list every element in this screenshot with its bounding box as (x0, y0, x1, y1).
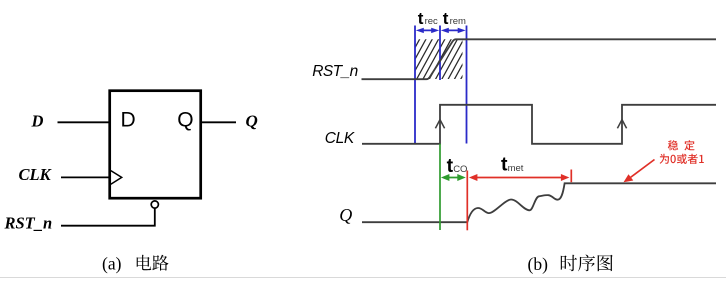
svg-text:D: D (121, 108, 136, 131)
svg-text:D: D (31, 111, 44, 130)
svg-text:CLK: CLK (325, 130, 355, 147)
svg-text:Q: Q (339, 205, 352, 225)
svg-text:CO: CO (453, 164, 467, 175)
svg-text:t: t (443, 9, 449, 28)
svg-text:RST_n: RST_n (312, 63, 358, 80)
svg-text:(a): (a) (102, 253, 122, 273)
svg-text:rem: rem (450, 16, 466, 27)
svg-text:Q: Q (246, 112, 258, 131)
svg-text:Q: Q (177, 108, 193, 131)
svg-text:t: t (418, 9, 424, 28)
svg-text:(b): (b) (528, 254, 549, 274)
svg-text:RST_n: RST_n (4, 214, 53, 233)
svg-text:CLK: CLK (19, 165, 52, 184)
svg-text:rec: rec (425, 16, 438, 27)
svg-text:met: met (508, 163, 524, 174)
